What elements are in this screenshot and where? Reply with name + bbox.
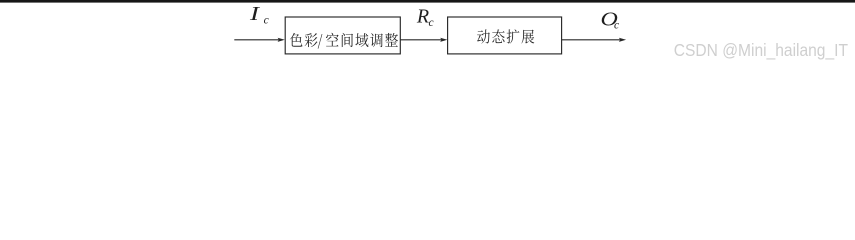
svg-text:c: c xyxy=(264,15,269,27)
svg-text:CSDN @Mini_hailang_IT: CSDN @Mini_hailang_IT xyxy=(674,40,848,60)
svg-text:I: I xyxy=(249,3,260,25)
svg-text:c: c xyxy=(614,19,619,31)
svg-text:c: c xyxy=(429,17,434,29)
svg-text:R: R xyxy=(416,6,429,28)
